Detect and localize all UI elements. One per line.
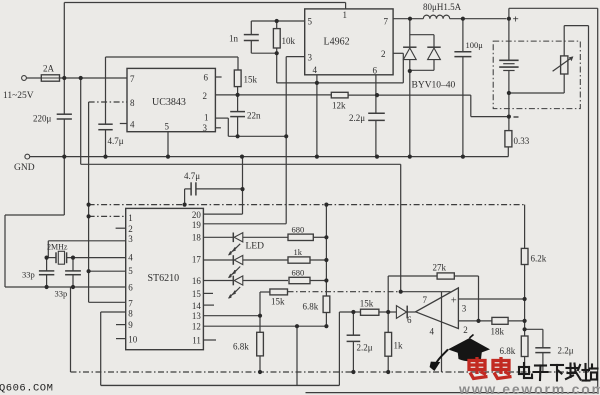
svg-text:14: 14 [192,301,202,311]
svg-text:15k: 15k [244,75,258,85]
svg-text:80μH1.5A: 80μH1.5A [423,2,462,12]
svg-text:15k: 15k [271,297,285,307]
svg-text:6: 6 [128,283,133,293]
svg-text:6.8k: 6.8k [500,346,516,356]
svg-text:4: 4 [130,120,135,130]
svg-text:3: 3 [128,234,133,244]
svg-text:4.7μ: 4.7μ [108,136,124,146]
svg-text:1: 1 [204,113,209,123]
svg-text:33p: 33p [55,289,68,299]
svg-text:10k: 10k [282,36,296,46]
svg-text:2.2μ: 2.2μ [349,113,365,123]
svg-text:ST6210: ST6210 [148,273,180,284]
svg-text:15k: 15k [360,299,374,309]
svg-text:2MHz: 2MHz [47,243,68,252]
svg-text:6: 6 [204,73,209,83]
svg-text:11: 11 [192,336,201,346]
svg-text:15: 15 [192,289,202,299]
svg-text:L4962: L4962 [324,37,350,48]
svg-text:6.8k: 6.8k [303,302,319,312]
svg-text:3: 3 [203,123,208,133]
svg-text:8: 8 [128,308,133,318]
svg-text:11~25V: 11~25V [3,91,34,101]
svg-text:20: 20 [192,210,202,220]
svg-text:1: 1 [128,213,133,223]
svg-text:LED: LED [246,242,265,252]
svg-text:UC3843: UC3843 [152,97,186,108]
svg-text:2: 2 [381,49,386,59]
svg-text:7: 7 [128,299,133,309]
svg-text:2.2μ: 2.2μ [357,343,373,353]
svg-text:5: 5 [165,122,170,132]
svg-text:2.2μ: 2.2μ [558,346,574,356]
svg-text:8: 8 [130,98,135,108]
svg-text:0.33: 0.33 [514,136,530,146]
svg-text:22n: 22n [247,111,261,121]
svg-text:10: 10 [128,334,138,344]
svg-text:6: 6 [373,66,378,76]
svg-text:4: 4 [430,327,435,337]
svg-text:2A: 2A [43,64,55,74]
svg-text:7: 7 [423,295,428,305]
svg-text:www.eeworm.com: www.eeworm.com [458,381,600,395]
svg-text:GND: GND [14,163,35,173]
svg-text:17: 17 [192,255,202,265]
svg-text:1k: 1k [294,247,303,257]
svg-text:2: 2 [128,224,133,234]
svg-text:18: 18 [192,232,202,242]
svg-text:220μ: 220μ [33,114,52,124]
svg-text:100μ: 100μ [466,40,484,50]
svg-text:680: 680 [292,225,305,235]
svg-text:12: 12 [192,322,201,332]
svg-text:+: + [513,14,519,26]
svg-text:3: 3 [308,53,313,63]
svg-text:7: 7 [130,74,135,84]
svg-text:5: 5 [128,266,133,276]
svg-text:7: 7 [384,17,389,27]
svg-text:16: 16 [192,276,202,286]
svg-text:2: 2 [203,91,208,101]
svg-text:BYV10–40: BYV10–40 [412,81,456,91]
svg-text:1: 1 [343,10,348,20]
svg-text:19: 19 [192,220,202,230]
svg-text:4.7μ: 4.7μ [184,171,200,181]
svg-text:9: 9 [128,320,133,330]
svg-text:13: 13 [192,311,202,321]
svg-text:27k: 27k [433,263,447,273]
svg-text:+: + [451,296,457,307]
svg-text:2: 2 [463,325,468,335]
svg-text:12k: 12k [332,101,346,111]
svg-text:680: 680 [292,268,305,278]
svg-text:4: 4 [313,65,318,75]
svg-text:3: 3 [462,304,467,314]
svg-text:33p: 33p [22,270,35,280]
svg-text:Q606.COM: Q606.COM [0,383,53,395]
svg-text:6.8k: 6.8k [233,342,249,352]
svg-text:18k: 18k [491,327,505,337]
svg-text:5: 5 [308,17,313,27]
svg-text:1n: 1n [229,34,239,44]
svg-text:4: 4 [128,252,133,262]
svg-text:6.2k: 6.2k [531,254,547,264]
svg-text:1k: 1k [394,341,404,351]
